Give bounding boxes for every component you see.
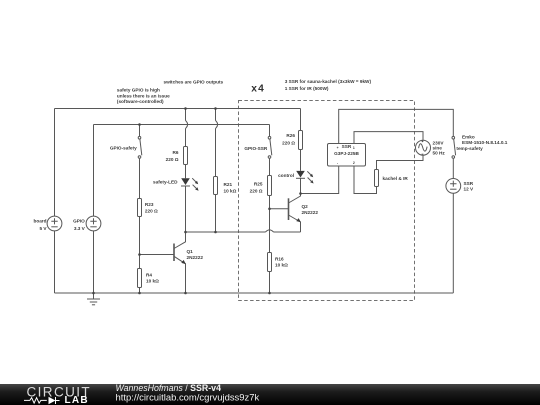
svg-text:3.3 V: 3.3 V (74, 226, 86, 231)
wire left leg to board source (54, 109, 56, 217)
wire collector node to SSR pin - (301, 166, 339, 194)
svg-text:switches are GPIO outputs: switches are GPIO outputs (164, 80, 224, 85)
resistor R25 (268, 176, 272, 196)
wire SSR pin 1 to 230V source (354, 132, 423, 144)
wire temp-safety to SSR 12V source (452, 159, 454, 179)
wire R16 bottom (269, 272, 271, 294)
svg-text:R23: R23 (145, 202, 154, 207)
svg-text:R21: R21 (224, 182, 233, 187)
svg-text:R4: R4 (146, 272, 152, 277)
resistor R26 (299, 131, 303, 150)
svg-text:G3PJ-225B: G3PJ-225B (334, 151, 359, 156)
resistor kachel & IR (375, 170, 379, 187)
relay module SSR G3PJ-225B body (328, 144, 366, 167)
switch GPIO-safety (138, 136, 142, 158)
wire SSR pin 2 to kachel bottom (354, 166, 377, 194)
wire switch to R25 (269, 159, 271, 176)
svg-text:Q2: Q2 (302, 204, 309, 209)
svg-text:2N2222: 2N2222 (302, 210, 319, 215)
wire LED to collector node (300, 178, 302, 193)
CircuitLab logo (24, 384, 91, 405)
node top rail R21 tap (214, 107, 217, 110)
svg-text:Q1: Q1 (187, 249, 194, 254)
LED control (296, 171, 314, 184)
svg-text:R26: R26 (286, 133, 295, 138)
svg-text:220 Ω: 220 Ω (282, 140, 295, 145)
wire bottom rail (55, 292, 454, 294)
svg-text:ESM-1510-N.8.14.0.1: ESM-1510-N.8.14.0.1 (462, 140, 508, 145)
footer bar (0, 384, 540, 405)
node top rail R6 tap (184, 107, 187, 110)
wire 230V bottom to kachel top (377, 155, 424, 169)
resistor R4 (138, 269, 142, 288)
svg-text:GPIO-safety: GPIO-safety (110, 146, 137, 151)
svg-text:R16: R16 (275, 257, 284, 262)
node dots (92, 107, 302, 294)
wire top rail down to R26 (300, 109, 302, 131)
svg-text:10 kΩ: 10 kΩ (146, 278, 159, 283)
wire R26 to control LED (300, 150, 302, 171)
svg-text:5 V: 5 V (39, 226, 47, 231)
resistor R23 (138, 199, 142, 217)
svg-text:2: 2 (353, 161, 355, 165)
svg-text:safety GPIO is high: safety GPIO is high (117, 87, 160, 92)
svg-text:GPIO-SSR: GPIO-SSR (244, 146, 268, 151)
wire GPIO-SSR top (269, 125, 271, 137)
resistor R6 (184, 147, 188, 165)
wire top rail (55, 108, 301, 110)
svg-text:safety-LED: safety-LED (153, 180, 178, 185)
svg-text:+: + (337, 146, 339, 150)
node rail2 switch tap (138, 123, 141, 126)
wire R25 to R16 (passes node wire, straight) (269, 196, 271, 253)
svg-text:SSR: SSR (464, 181, 474, 186)
node Q1 base (138, 253, 141, 256)
svg-text:10 kΩ: 10 kΩ (224, 189, 237, 194)
dashed annotation box x4 (239, 101, 415, 301)
svg-text:temp-safety: temp-safety (456, 146, 483, 151)
LED safety-LED (181, 178, 199, 191)
wire R21 bottom (215, 195, 217, 233)
svg-text:2N2222: 2N2222 (187, 255, 204, 260)
resistor R21 (214, 177, 218, 195)
svg-text:LAB: LAB (65, 395, 89, 405)
svg-text:Emko: Emko (462, 134, 475, 139)
svg-text:http://circuitlab.com/cgrvujds: http://circuitlab.com/cgrvujdss9z7k (116, 393, 260, 404)
switch temp-safety (452, 136, 456, 158)
wire GPIO source bottom (93, 231, 95, 293)
svg-text:unless there is an issue: unless there is an issue (117, 93, 170, 98)
node collector wire LED tap (184, 231, 187, 234)
svg-text:220 Ω: 220 Ω (250, 188, 263, 193)
AC source 230V (416, 140, 431, 155)
wire R4 bottom (139, 288, 141, 294)
wire SSR 12V to bottom rail (452, 193, 454, 293)
wire GPIO leg (93, 125, 95, 217)
node collector wire R21 tap (214, 231, 217, 234)
transistor Q1 (140, 232, 186, 293)
svg-text:kachel & IR: kachel & IR (383, 176, 409, 181)
wire node Q1 collector to Q2 emitter with hop (186, 230, 301, 232)
node Q2 collector (299, 192, 302, 195)
resistor R16 (268, 253, 272, 272)
svg-text:1 SSR for IR (500W): 1 SSR for IR (500W) (285, 86, 329, 91)
node R16 bottom (268, 292, 271, 295)
wire SSR pin + to temp-safety (339, 109, 454, 143)
voltage source board 5V (47, 216, 62, 231)
wire R21 branch with hop over rail 2 (216, 109, 218, 177)
svg-text:x4: x4 (251, 83, 265, 94)
wire R23 to R4 (139, 217, 141, 269)
svg-text:3 SSR for sauna-kachel (3x3kW: 3 SSR for sauna-kachel (3x3kW = 9kW) (285, 79, 372, 84)
wire rail 2 (94, 124, 270, 126)
svg-text:SSR: SSR (342, 144, 352, 149)
svg-text:-: - (337, 161, 338, 165)
voltage source GPIO 3.3V (86, 216, 101, 231)
svg-text:R25: R25 (254, 181, 263, 186)
wire R6 branch with hop over rail 2 (186, 109, 188, 147)
svg-text:10 kΩ: 10 kΩ (275, 263, 288, 268)
node ground tap (92, 292, 95, 295)
svg-text:control: control (278, 173, 294, 178)
svg-text:1: 1 (353, 146, 355, 150)
transistor Q2 (270, 194, 301, 233)
ground (87, 293, 100, 305)
wire switch to R23 (139, 159, 141, 199)
svg-text:12 V: 12 V (464, 187, 475, 192)
svg-text:R6: R6 (173, 150, 179, 155)
node Q2 base (268, 208, 271, 211)
wire GPIO-safety top (139, 125, 141, 137)
voltage source SSR 12V (446, 179, 461, 194)
wire safety-LED to node (185, 186, 187, 232)
svg-text:WannesHofmans / SSR-v4: WannesHofmans / SSR-v4 (116, 383, 222, 393)
switch GPIO-SSR (268, 136, 272, 158)
svg-text:GPIO: GPIO (73, 219, 85, 224)
svg-text:220 Ω: 220 Ω (166, 157, 179, 162)
svg-text:board: board (33, 219, 46, 224)
svg-text:(software-controlled): (software-controlled) (117, 99, 164, 104)
node Q1 emitter bottom (184, 292, 187, 295)
wire board source bottom (54, 231, 56, 293)
wire R6 to safety-LED (185, 165, 187, 179)
svg-text:220 Ω: 220 Ω (145, 208, 158, 213)
svg-text:50 Hz: 50 Hz (433, 151, 446, 156)
node R4 bottom (138, 292, 141, 295)
